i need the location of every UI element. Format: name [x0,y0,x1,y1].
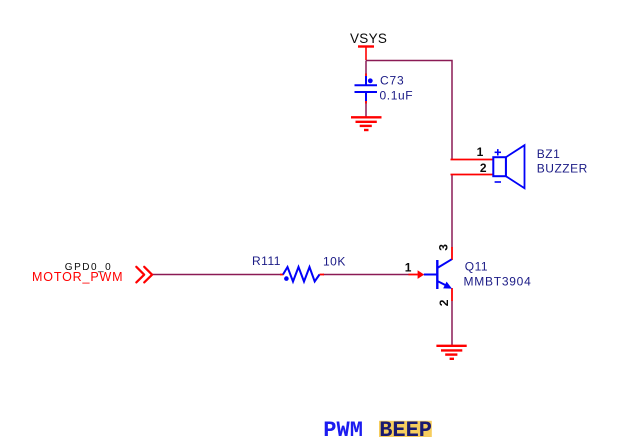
svg-text:2: 2 [437,299,451,306]
svg-text:1: 1 [477,145,484,159]
svg-text:3: 3 [437,244,451,251]
svg-text:10K: 10K [323,255,346,269]
svg-text:Q11: Q11 [465,259,488,273]
svg-text:BZ1: BZ1 [537,147,561,161]
svg-text:MOTOR_PWM: MOTOR_PWM [32,270,123,284]
svg-text:MMBT3904: MMBT3904 [464,275,532,289]
svg-text:BEEP: BEEP [379,418,432,443]
svg-text:PWM: PWM [323,418,363,443]
svg-text:VSYS: VSYS [350,31,387,46]
svg-text:BUZZER: BUZZER [537,161,588,175]
svg-text:C73: C73 [380,74,404,88]
svg-text:R111: R111 [252,254,281,268]
svg-text:1: 1 [405,260,412,274]
svg-text:2: 2 [480,161,487,175]
svg-text:0.1uF: 0.1uF [380,88,414,102]
